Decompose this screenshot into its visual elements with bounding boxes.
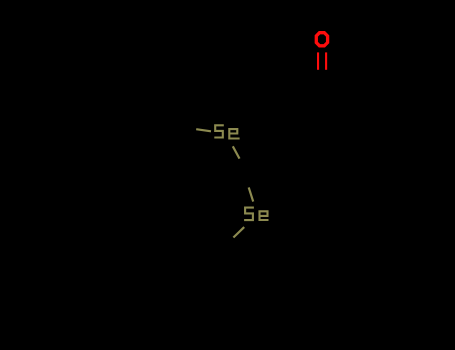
wire: Se2 to phenyl C half-bond [233,227,244,237]
wire: phenyl C to Se1 half-bond [196,129,211,131]
selenium Se1 label [214,125,239,138]
ketone oxygen O [316,33,327,46]
wire: Se1 to CH half-bond [233,146,240,158]
selenium Se2 label [244,208,268,221]
C=O double bond [318,52,326,69]
wire: CH to Se2 half-bond [249,187,254,201]
